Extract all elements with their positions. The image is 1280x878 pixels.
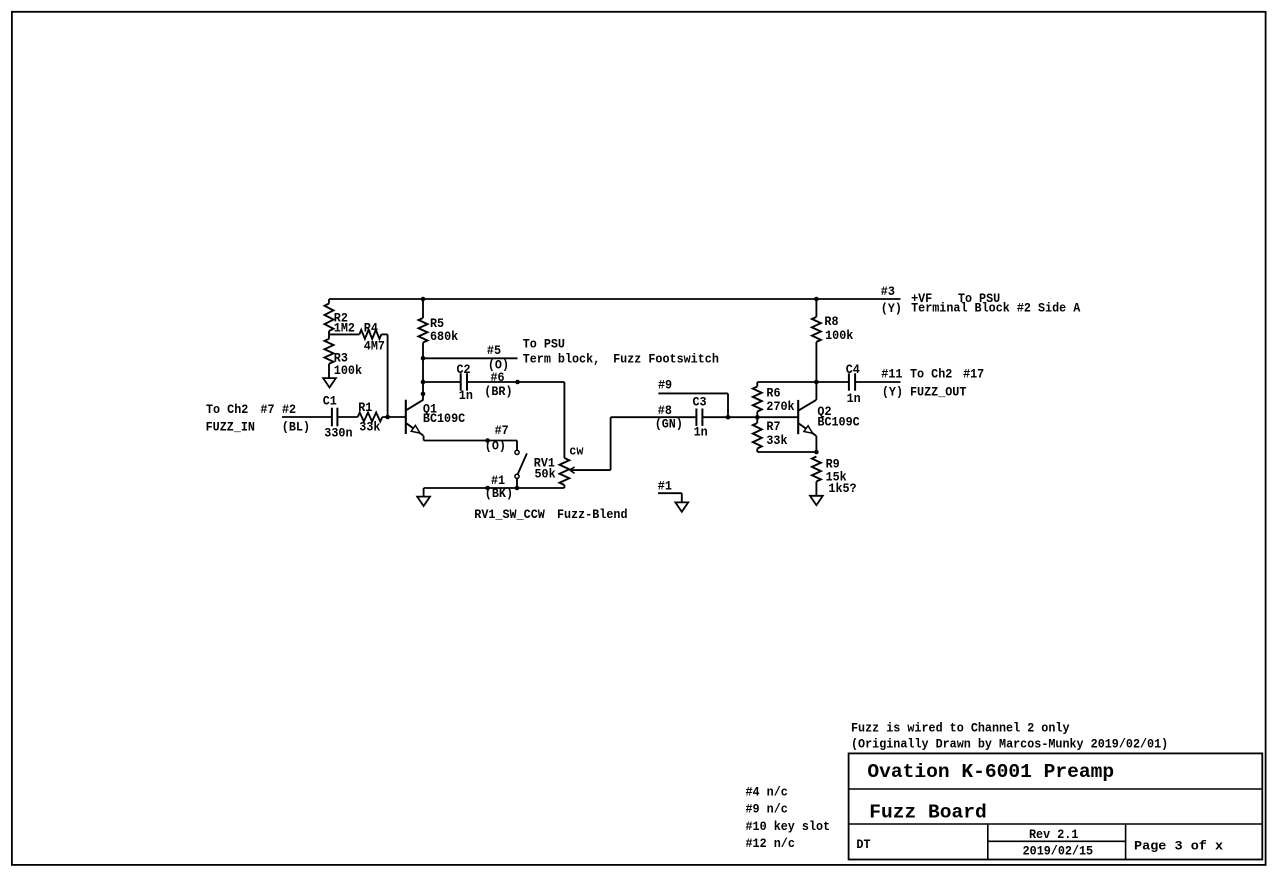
svg-text:#3: #3	[881, 284, 895, 299]
junction #5 tap	[421, 356, 426, 361]
svg-text:1n: 1n	[459, 388, 473, 403]
capacitor C2	[461, 373, 467, 390]
svg-text:RV1_SW_CCW: RV1_SW_CCW	[474, 507, 545, 522]
wire Q2 emitter down	[815, 436, 817, 452]
wire R7 bottom corner	[756, 449, 758, 453]
ground right #1	[675, 502, 688, 511]
wire switch to #1	[516, 478, 518, 488]
svg-text:50k: 50k	[535, 467, 556, 482]
svg-text:R8: R8	[824, 314, 838, 329]
capacitor C1	[332, 408, 338, 427]
switch RV1_SW contact B	[515, 474, 519, 478]
svg-text:100k: 100k	[825, 328, 854, 343]
svg-text:#12 n/c: #12 n/c	[746, 836, 795, 851]
svg-text:Fuzz-Blend: Fuzz-Blend	[557, 507, 628, 522]
junction Q2 base node	[755, 415, 760, 420]
wire net #5 to PSU	[423, 357, 518, 359]
resistor R1	[358, 413, 383, 422]
junction #1/switch	[515, 486, 520, 491]
svg-text:#9 n/c: #9 n/c	[746, 802, 788, 817]
wire input to C1	[282, 416, 332, 418]
svg-text:FUZZ_IN: FUZZ_IN	[206, 420, 255, 435]
resistor R7	[753, 423, 762, 449]
wire rail to R8	[815, 299, 817, 317]
resistor R4	[359, 330, 381, 339]
wire R8 to collector node	[815, 342, 817, 382]
svg-text:#1: #1	[658, 478, 672, 493]
wire C4 to output	[855, 381, 900, 383]
svg-text:Page 3 of x: Page 3 of x	[1134, 839, 1223, 854]
svg-text:(Y): (Y)	[881, 301, 902, 316]
svg-text:1n: 1n	[847, 391, 861, 406]
svg-text:100k: 100k	[334, 363, 363, 378]
switch RV1_SW contact A	[515, 450, 519, 454]
svg-text:1k5?: 1k5?	[828, 481, 856, 496]
wire Q2 base	[757, 416, 798, 418]
svg-text:(BR): (BR)	[484, 384, 512, 399]
svg-text:#10 key slot: #10 key slot	[746, 819, 831, 834]
svg-text:(BK): (BK)	[485, 486, 513, 501]
wire to C4	[816, 381, 849, 383]
junction on #6 wire	[515, 380, 520, 385]
svg-text:#4 n/c: #4 n/c	[746, 784, 788, 799]
junction #1/gnd wire	[485, 486, 490, 491]
svg-text:To Ch2: To Ch2	[910, 366, 952, 381]
wire #7 to switch	[516, 441, 518, 451]
junction on #7 wire	[485, 438, 490, 443]
wire +VF rail	[329, 298, 901, 300]
svg-text:R1: R1	[358, 400, 372, 415]
wire net #9	[658, 392, 728, 394]
ground under Q1	[417, 497, 430, 506]
svg-text:#7: #7	[260, 402, 274, 417]
resistor R3	[325, 339, 334, 364]
svg-text:BC109C: BC109C	[423, 411, 466, 426]
wire R2-R3 junction	[328, 331, 330, 339]
junction collector	[421, 392, 426, 397]
svg-text:#7: #7	[495, 423, 509, 438]
ground under R9	[810, 496, 823, 505]
svg-text:DT: DT	[856, 837, 870, 852]
svg-text:270k: 270k	[766, 399, 795, 414]
switch lever	[518, 453, 527, 474]
wire C2 to RV1 top	[467, 381, 564, 383]
svg-text:FUZZ_OUT: FUZZ_OUT	[910, 385, 967, 400]
capacitor C4	[849, 373, 855, 390]
svg-text:1M2: 1M2	[334, 320, 355, 335]
junction #9/#8	[726, 415, 731, 420]
svg-text:C4: C4	[846, 362, 860, 377]
potentiometer RV1	[560, 458, 570, 485]
wire #1 right stub	[658, 492, 682, 494]
wire RV1 bottom	[563, 485, 565, 488]
connector notes	[746, 784, 831, 851]
svg-text:Terminal Block #2 Side A: Terminal Block #2 Side A	[911, 301, 1081, 316]
junction #6 tap	[421, 380, 426, 385]
svg-text:#11: #11	[881, 366, 902, 381]
svg-text:#5: #5	[487, 343, 501, 358]
svg-text:Ovation K-6001 Preamp: Ovation K-6001 Preamp	[867, 761, 1114, 783]
transistor Q2	[798, 400, 816, 436]
svg-text:BC109C: BC109C	[817, 415, 860, 430]
svg-text:#6: #6	[491, 370, 505, 385]
svg-text:C3: C3	[693, 395, 707, 410]
wire C1 to R1	[337, 416, 357, 418]
wire Q2 collector up	[815, 382, 817, 400]
wire R9 to ground	[815, 482, 817, 496]
resistor R2	[325, 304, 334, 332]
junction rail/R5	[421, 297, 426, 302]
wire net #1	[424, 487, 565, 489]
capacitor C3	[696, 409, 702, 426]
junction Q2 emitter/R9	[814, 450, 819, 455]
junction rail/R8	[814, 297, 819, 302]
junction collector/C4	[814, 380, 819, 385]
svg-text:2019/02/15: 2019/02/15	[1023, 844, 1094, 859]
wire rail to R5	[422, 299, 424, 318]
svg-text:C2: C2	[457, 362, 471, 377]
wire Q1 emitter down	[423, 436, 425, 441]
node R2/R3/R4	[329, 333, 359, 335]
svg-text:680k: 680k	[430, 329, 459, 344]
svg-text:cw: cw	[569, 444, 583, 459]
wire R5 to Q1 collector	[422, 343, 424, 400]
svg-text:#17: #17	[963, 366, 984, 381]
svg-text:R4: R4	[364, 320, 378, 335]
svg-text:To PSU: To PSU	[523, 337, 565, 352]
svg-text:C1: C1	[323, 393, 337, 408]
svg-text:33k: 33k	[766, 433, 787, 448]
ground under R3	[323, 378, 336, 387]
wire R6 to R7	[756, 412, 758, 424]
transistor Q1	[406, 400, 424, 436]
resistor R5	[419, 318, 428, 343]
wire net #7	[424, 440, 517, 442]
wire #6 line to C2	[423, 381, 461, 383]
svg-text:(Originally Drawn by Marcos-Mu: (Originally Drawn by Marcos-Munky 2019/0…	[851, 737, 1168, 752]
svg-text:Fuzz Footswitch: Fuzz Footswitch	[613, 351, 719, 366]
svg-text:330n: 330n	[324, 426, 352, 441]
junction R1/R4/base	[385, 415, 390, 420]
title block	[849, 753, 1263, 859]
wire wiper to #8	[570, 469, 611, 471]
wire R1 to Q1 base	[382, 416, 406, 418]
wire R6 top corner	[756, 382, 758, 387]
resistor R8	[812, 317, 821, 342]
svg-text:(Y): (Y)	[882, 385, 903, 400]
svg-text:4M7: 4M7	[364, 338, 385, 353]
resistor R9	[812, 457, 821, 482]
svg-text:To Ch2: To Ch2	[206, 402, 248, 417]
svg-text:#2: #2	[282, 402, 296, 417]
wire #1 to ground	[423, 488, 425, 497]
svg-text:Term block,: Term block,	[523, 351, 601, 366]
svg-text:Fuzz is wired to Channel 2 onl: Fuzz is wired to Channel 2 only	[851, 721, 1070, 736]
svg-text:(O): (O)	[485, 439, 506, 454]
svg-text:(GN): (GN)	[655, 416, 683, 431]
wire R3 to ground	[328, 364, 330, 378]
wire R4 to Q1 base	[381, 333, 387, 335]
resistor R6	[753, 387, 762, 412]
svg-text:Fuzz Board: Fuzz Board	[869, 801, 987, 823]
svg-text:1n: 1n	[694, 425, 708, 440]
svg-text:(BL): (BL)	[282, 420, 310, 435]
RV1 wiper arrow	[570, 467, 575, 473]
wire C3 to Q2 base node	[702, 416, 757, 418]
svg-text:33k: 33k	[359, 420, 380, 435]
svg-text:Rev 2.1: Rev 2.1	[1029, 827, 1079, 842]
wire R2 top stub	[328, 299, 330, 304]
svg-text:#9: #9	[658, 378, 672, 393]
